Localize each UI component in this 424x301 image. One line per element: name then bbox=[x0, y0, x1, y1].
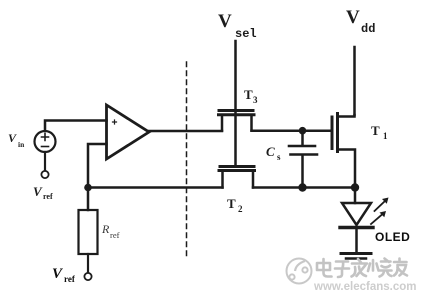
transistor T2 gate bar bbox=[220, 165, 254, 168]
wire feedback bottom run left of T2 bbox=[88, 186, 223, 189]
svg-text:ref: ref bbox=[64, 274, 76, 284]
svg-text:s: s bbox=[277, 152, 281, 162]
svg-text:1: 1 bbox=[383, 131, 388, 141]
友 bbox=[394, 259, 407, 276]
diode OLED cathode bar bbox=[340, 226, 373, 229]
light emission arrows bbox=[371, 198, 389, 225]
wire OLED cathode lead bbox=[355, 229, 358, 252]
label T3 bbox=[244, 87, 258, 105]
发 bbox=[352, 259, 368, 277]
transistor T1 drain connection to V_dd bbox=[338, 115, 355, 117]
op-amp U1 bbox=[107, 105, 150, 159]
svg-text:sel: sel bbox=[235, 27, 257, 41]
label V_ref (under source) bbox=[33, 184, 53, 201]
node capacitor bottom junction bbox=[298, 183, 306, 191]
label T2 bbox=[227, 196, 243, 214]
wire V_sel vertical line to gates of T3 and T2 bbox=[234, 41, 237, 166]
wire V_in source bottom to terminal bbox=[44, 152, 46, 171]
烧 bbox=[368, 259, 392, 277]
svg-text:V: V bbox=[33, 184, 43, 199]
svg-text:ref: ref bbox=[110, 230, 120, 240]
transistor T2 channel bar bbox=[219, 169, 255, 172]
node feedback junction bbox=[84, 184, 92, 192]
svg-text:ref: ref bbox=[43, 192, 53, 201]
svg-text:V: V bbox=[218, 11, 232, 32]
transistor T3 gate bar bbox=[219, 109, 253, 112]
label V_sel bbox=[218, 11, 257, 41]
svg-text:T: T bbox=[244, 87, 253, 102]
svg-text:V: V bbox=[8, 131, 17, 145]
watermark logo circle bbox=[287, 259, 312, 284]
transistor T3 channel bar bbox=[219, 113, 255, 116]
svg-text:in: in bbox=[18, 140, 25, 149]
svg-text:www.elecfans.com: www.elecfans.com bbox=[313, 281, 416, 293]
transistor T2 right terminal bbox=[252, 172, 255, 188]
label V_in bbox=[8, 131, 25, 149]
ground bbox=[341, 254, 371, 259]
capacitor C_s bottom plate bbox=[291, 153, 318, 156]
svg-text:3: 3 bbox=[253, 95, 258, 105]
watermark text 电子发烧友 (drawn strokes) bbox=[317, 259, 407, 278]
wire op-amp output to T3 left terminal bbox=[149, 130, 222, 133]
capacitor C_s bottom lead bbox=[301, 156, 304, 188]
voltage source V_in bbox=[35, 131, 56, 152]
wire feedback bottom run right of T2 to OLED node bbox=[253, 186, 355, 189]
hanzi 电 bbox=[317, 259, 332, 277]
label C_s bbox=[266, 144, 281, 162]
wire V_dd vertical line bbox=[353, 47, 356, 115]
resistor R_ref bbox=[79, 210, 98, 254]
transistor T1 gate bar bbox=[331, 117, 334, 149]
wire T3 right terminal to T1 gate bbox=[252, 129, 333, 132]
label T1 bbox=[371, 123, 388, 141]
terminal V_ref under source bbox=[41, 171, 48, 178]
label V_ref (bottom) bbox=[52, 266, 76, 284]
svg-text:C: C bbox=[266, 144, 275, 159]
label R_ref bbox=[101, 222, 120, 240]
transistor T3 right terminal bbox=[250, 116, 253, 131]
transistor T1 channel bar bbox=[336, 114, 339, 152]
wire op-amp inverting input from feedback node bbox=[88, 144, 107, 188]
transistor T1 source connection down bbox=[338, 150, 355, 188]
diode OLED triangle bbox=[342, 203, 371, 225]
capacitor C_s top plate bbox=[289, 145, 315, 148]
子 bbox=[335, 262, 349, 278]
svg-text:R: R bbox=[101, 222, 110, 236]
wire OLED anode lead bbox=[354, 188, 357, 204]
svg-text:OLED: OLED bbox=[375, 230, 410, 244]
transistor T3 left terminal bbox=[221, 116, 224, 131]
svg-text:2: 2 bbox=[238, 204, 243, 214]
node OLED anode junction bbox=[351, 183, 359, 191]
wire V_in source top to op-amp noninverting input bbox=[45, 121, 107, 132]
wire junction to resistor R_ref bbox=[87, 188, 90, 211]
terminal V_ref bottom bbox=[84, 273, 91, 280]
svg-text:V: V bbox=[346, 7, 360, 28]
svg-text:dd: dd bbox=[361, 22, 375, 36]
wire resistor to V_ref terminal bbox=[87, 254, 89, 273]
node storage cap top junction bbox=[299, 127, 307, 135]
transistor T2 left terminal bbox=[221, 172, 224, 188]
dashed boundary line bbox=[186, 62, 188, 257]
capacitor C_s top lead bbox=[301, 131, 304, 145]
svg-text:T: T bbox=[371, 123, 380, 138]
label V_dd bbox=[346, 7, 375, 36]
svg-text:T: T bbox=[227, 196, 236, 211]
